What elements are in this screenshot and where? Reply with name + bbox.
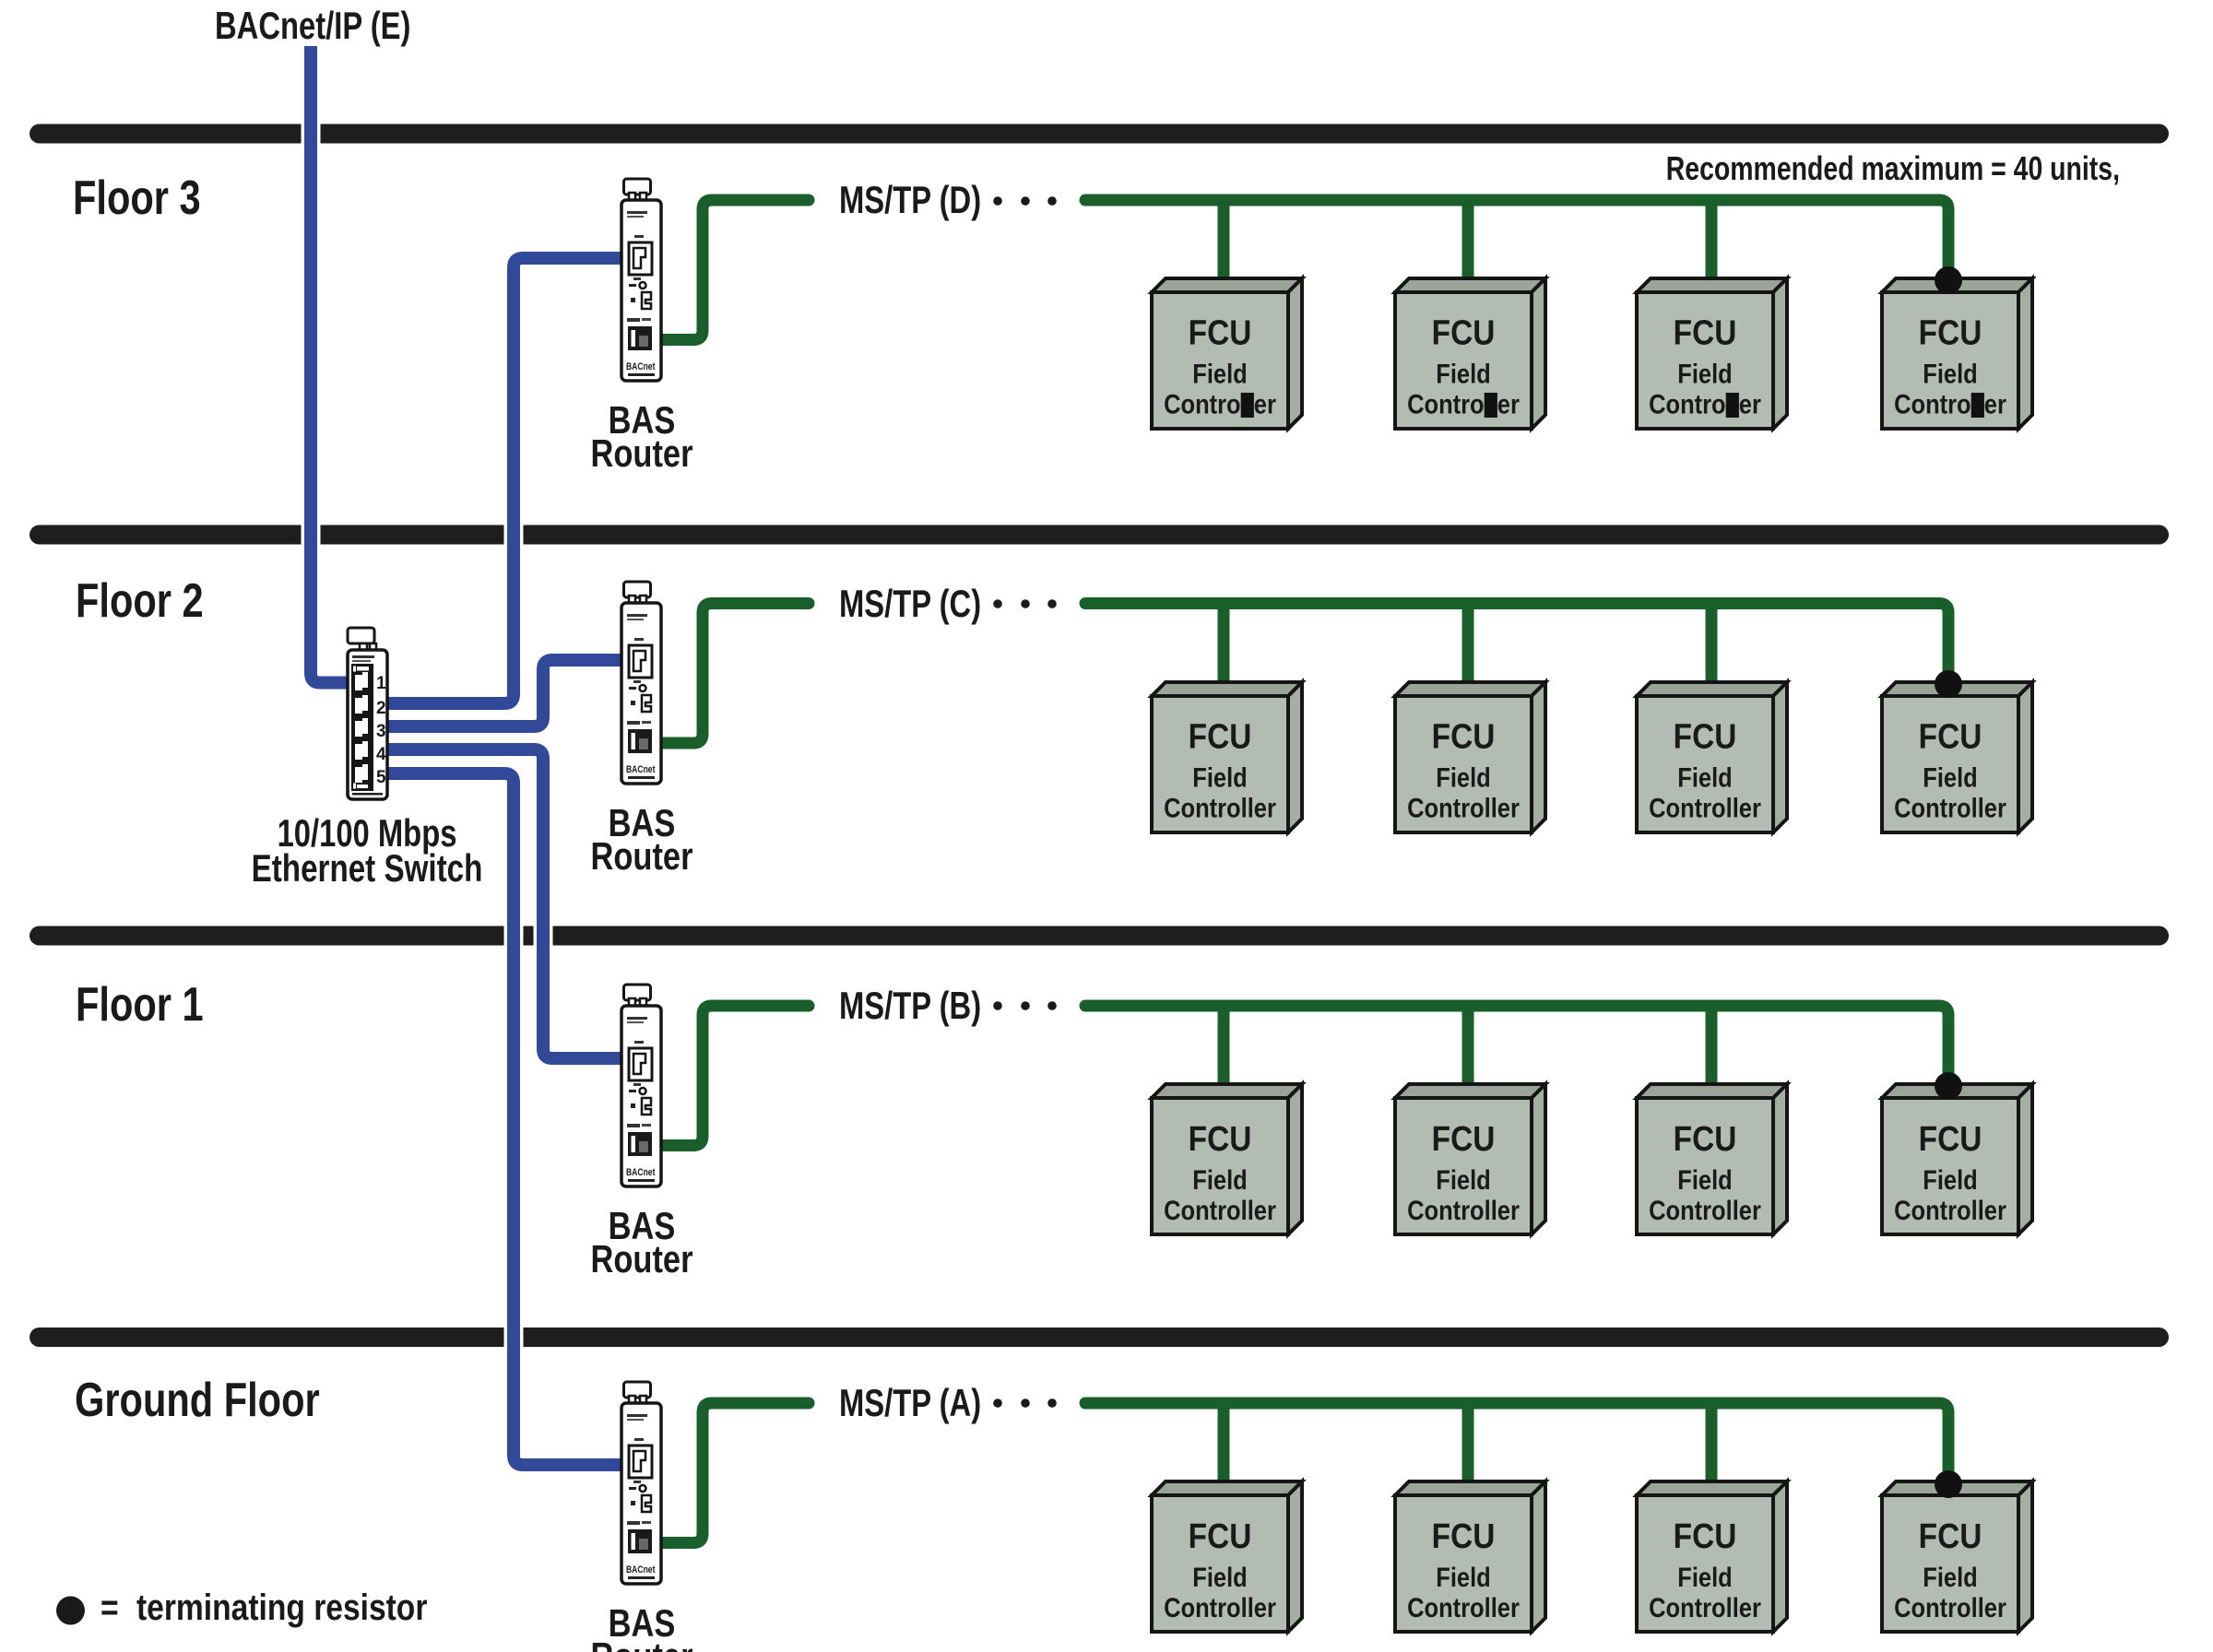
Ground: green MS/TP stub from router <box>655 1403 809 1543</box>
Floor 1: FCU drop 2 <box>1462 1009 1474 1093</box>
Ground FCU 2 text <box>1407 1516 1520 1622</box>
Floor 1 terminating resistor dot <box>1935 1072 1962 1100</box>
svg-text:Controller: Controller <box>1164 1592 1276 1622</box>
wire BACnet/IP (E) riser casing <box>311 46 352 683</box>
svg-text:Router: Router <box>591 1238 693 1281</box>
Floor 2 FCU 1 box <box>1152 682 1302 832</box>
wire switch port3 to Floor2 router <box>385 660 625 726</box>
svg-text:Field: Field <box>1192 762 1247 793</box>
svg-text:Router: Router <box>591 1635 693 1652</box>
svg-text:BACnet/IP (E): BACnet/IP (E) <box>215 4 410 47</box>
svg-text:FCU: FCU <box>1189 717 1252 756</box>
Ground FCU 1 text <box>1164 1516 1276 1622</box>
svg-text:Field: Field <box>1923 1562 1977 1592</box>
Floor 3 FCU 4 box <box>1882 278 2032 429</box>
Floor 2 FCU 2 text <box>1407 717 1520 823</box>
Ground: green MS/TP bus <box>1085 1403 1948 1491</box>
floor slab bar 4 <box>30 1327 2169 1347</box>
Floor 1 FCU 3 text <box>1649 1119 1761 1225</box>
svg-text:Field: Field <box>1436 762 1490 793</box>
svg-text:FCU: FCU <box>1432 1516 1496 1555</box>
Floor 3: green MS/TP bus <box>1085 200 1948 288</box>
Floor 3 terminating resistor dot <box>1935 266 1962 294</box>
wire switch port4 to Floor1 router <box>385 749 625 1058</box>
Floor 1: FCU drop 3 <box>1706 1009 1718 1093</box>
svg-text:FCU: FCU <box>1432 717 1496 756</box>
Floor 2 FCU 2 box <box>1395 682 1545 832</box>
svg-text:Floor 3: Floor 3 <box>73 171 201 225</box>
Floor 1 FCU 3 box <box>1637 1084 1787 1234</box>
svg-text:Controller: Controller <box>1649 389 1761 419</box>
svg-text:Controller: Controller <box>1407 389 1520 419</box>
Floor 3 FCU 4 text <box>1894 313 2006 419</box>
Floor 3: FCU drop 2 <box>1462 203 1474 288</box>
Ground FCU 1 box <box>1152 1481 1302 1632</box>
Floor 1 FCU 1 box <box>1152 1084 1302 1234</box>
svg-text:Controller: Controller <box>1894 1195 2006 1225</box>
svg-text:1: 1 <box>376 674 386 693</box>
Ground FCU 3 text <box>1649 1516 1761 1622</box>
svg-text:Field: Field <box>1436 1164 1490 1195</box>
Floor 2: green MS/TP bus <box>1085 604 1948 692</box>
svg-text:MS/TP (C): MS/TP (C) <box>839 582 981 625</box>
Floor 2 FCU 4 box <box>1882 682 2032 832</box>
dots A <box>993 1398 1002 1408</box>
svg-text:Field: Field <box>1923 1164 1977 1195</box>
Ground FCU 2 box <box>1395 1481 1545 1632</box>
Ground FCU 4 box <box>1882 1481 2032 1632</box>
Floor 3 FCU 3 text <box>1649 313 1761 419</box>
svg-text:MS/TP (A): MS/TP (A) <box>839 1381 981 1424</box>
Ground terminating resistor dot <box>1935 1470 1962 1498</box>
svg-text:terminating resistor: terminating resistor <box>136 1587 427 1627</box>
svg-text:FCU: FCU <box>1189 313 1252 352</box>
svg-text:4: 4 <box>376 745 386 764</box>
Floor 2: green MS/TP stub from router <box>655 604 809 744</box>
svg-text:Controller: Controller <box>1894 1592 2006 1622</box>
svg-text:FCU: FCU <box>1919 717 1982 756</box>
Ground FCU 3 box <box>1637 1481 1787 1632</box>
wire switch port5 to Ground router casing <box>385 773 625 1465</box>
svg-text:MS/TP (B): MS/TP (B) <box>839 984 981 1027</box>
svg-text:Field: Field <box>1677 359 1732 389</box>
svg-text:FCU: FCU <box>1189 1516 1252 1555</box>
Floor 2 FCU 1 text <box>1164 717 1276 823</box>
svg-text:FCU: FCU <box>1919 1516 1982 1555</box>
svg-text:Controller: Controller <box>1894 793 2006 823</box>
Floor 2: FCU drop 3 <box>1706 607 1718 691</box>
svg-text:Field: Field <box>1677 1562 1732 1592</box>
svg-text:FCU: FCU <box>1432 1119 1496 1158</box>
dots B <box>993 1001 1002 1010</box>
svg-text:Router: Router <box>591 432 693 476</box>
svg-text:Controller: Controller <box>1407 1195 1520 1225</box>
svg-text:Controller: Controller <box>1407 1592 1520 1622</box>
Floor 1 FCU 2 text <box>1407 1119 1520 1225</box>
Floor 3: FCU drop 1 <box>1218 203 1230 288</box>
Floor 3 FCU 1 text <box>1164 313 1276 419</box>
wire switch port2 to Floor3 router <box>385 258 625 703</box>
svg-text:Recommended maximum = 40 units: Recommended maximum = 40 units, <box>1666 150 2120 187</box>
Ground FCU 4 text <box>1894 1516 2006 1622</box>
Floor 2: FCU drop 1 <box>1218 607 1230 691</box>
svg-text:Controller: Controller <box>1894 389 2006 419</box>
ethernet switch device <box>348 628 387 799</box>
svg-text:FCU: FCU <box>1432 313 1496 352</box>
wire switch port2 to Floor3 router casing <box>385 258 625 703</box>
Floor 1 FCU 4 text <box>1894 1119 2006 1225</box>
Floor 3 FCU 2 text <box>1407 313 1520 419</box>
legend terminating resistor <box>56 1597 85 1625</box>
svg-text:FCU: FCU <box>1674 1516 1737 1555</box>
svg-text:Controller: Controller <box>1649 1592 1761 1622</box>
wire BACnet/IP (E) riser <box>311 46 352 683</box>
svg-text:Field: Field <box>1677 1164 1732 1195</box>
svg-text:3: 3 <box>376 722 386 741</box>
Floor 1: FCU drop 1 <box>1218 1009 1230 1093</box>
svg-text:Field: Field <box>1436 359 1490 389</box>
floor slab bar 3 <box>30 926 2169 946</box>
Ground: FCU drop 3 <box>1706 1406 1718 1491</box>
svg-text:2: 2 <box>376 699 386 718</box>
Floor 1: green MS/TP stub from router <box>655 1006 809 1146</box>
dots C <box>993 599 1002 608</box>
svg-text:Controller: Controller <box>1649 793 1761 823</box>
svg-text:FCU: FCU <box>1919 1119 1982 1158</box>
svg-text:Router: Router <box>591 835 693 879</box>
svg-text:Floor 1: Floor 1 <box>76 977 204 1032</box>
svg-text:Ground Floor: Ground Floor <box>75 1373 320 1427</box>
svg-text:Floor 2: Floor 2 <box>76 573 204 628</box>
Floor 2: FCU drop 2 <box>1462 607 1474 691</box>
dots D <box>993 196 1002 206</box>
svg-text:Field: Field <box>1436 1562 1490 1592</box>
svg-text:Controller: Controller <box>1407 793 1520 823</box>
Ground: FCU drop 1 <box>1218 1406 1230 1491</box>
Floor 3: FCU drop 3 <box>1706 203 1718 288</box>
Floor 3 FCU 1 box <box>1152 278 1302 429</box>
svg-text:Controller: Controller <box>1649 1195 1761 1225</box>
svg-text:Field: Field <box>1923 762 1977 793</box>
Floor 1: green MS/TP bus <box>1085 1006 1948 1093</box>
Floor 1 FCU 2 box <box>1395 1084 1545 1234</box>
floor slab bar 1 <box>30 124 2169 144</box>
svg-text:Field: Field <box>1192 1164 1247 1195</box>
svg-text:FCU: FCU <box>1189 1119 1252 1158</box>
Floor 2 FCU 3 text <box>1649 717 1761 823</box>
Ground BAS router device <box>621 1382 661 1584</box>
svg-text:5: 5 <box>376 768 386 787</box>
svg-text:Controller: Controller <box>1164 389 1276 419</box>
Floor 2 terminating resistor dot <box>1935 670 1962 698</box>
Ground: FCU drop 2 <box>1462 1406 1474 1491</box>
svg-text:=: = <box>101 1587 119 1627</box>
svg-text:Field: Field <box>1192 1562 1247 1592</box>
Floor 1 BAS router device <box>621 985 661 1186</box>
svg-text:MS/TP (D): MS/TP (D) <box>839 178 981 221</box>
svg-text:FCU: FCU <box>1919 313 1982 352</box>
svg-text:Field: Field <box>1677 762 1732 793</box>
wire switch port4 to Floor1 router casing <box>385 749 625 1058</box>
svg-text:Field: Field <box>1923 359 1977 389</box>
Floor 3 FCU 2 box <box>1395 278 1545 429</box>
Floor 1 FCU 1 text <box>1164 1119 1276 1225</box>
wire switch port5 to Ground router <box>385 773 625 1465</box>
Floor 2 FCU 3 box <box>1637 682 1787 832</box>
Floor 3 FCU 3 box <box>1637 278 1787 429</box>
svg-text:FCU: FCU <box>1674 1119 1737 1158</box>
Floor 1 FCU 4 box <box>1882 1084 2032 1234</box>
floor slab bar 2 <box>30 525 2169 545</box>
Floor 3 BAS router device <box>621 179 661 381</box>
svg-text:Field: Field <box>1192 359 1247 389</box>
svg-text:Controller: Controller <box>1164 1195 1276 1225</box>
svg-text:Ethernet Switch: Ethernet Switch <box>252 846 483 889</box>
wire switch port3 to Floor2 router casing <box>385 660 625 726</box>
svg-text:FCU: FCU <box>1674 313 1737 352</box>
svg-text:Controller: Controller <box>1164 793 1276 823</box>
Floor 2 BAS router device <box>621 582 661 784</box>
Floor 3: green MS/TP stub from router <box>655 200 809 340</box>
svg-text:FCU: FCU <box>1674 717 1737 756</box>
Floor 2 FCU 4 text <box>1894 717 2006 823</box>
